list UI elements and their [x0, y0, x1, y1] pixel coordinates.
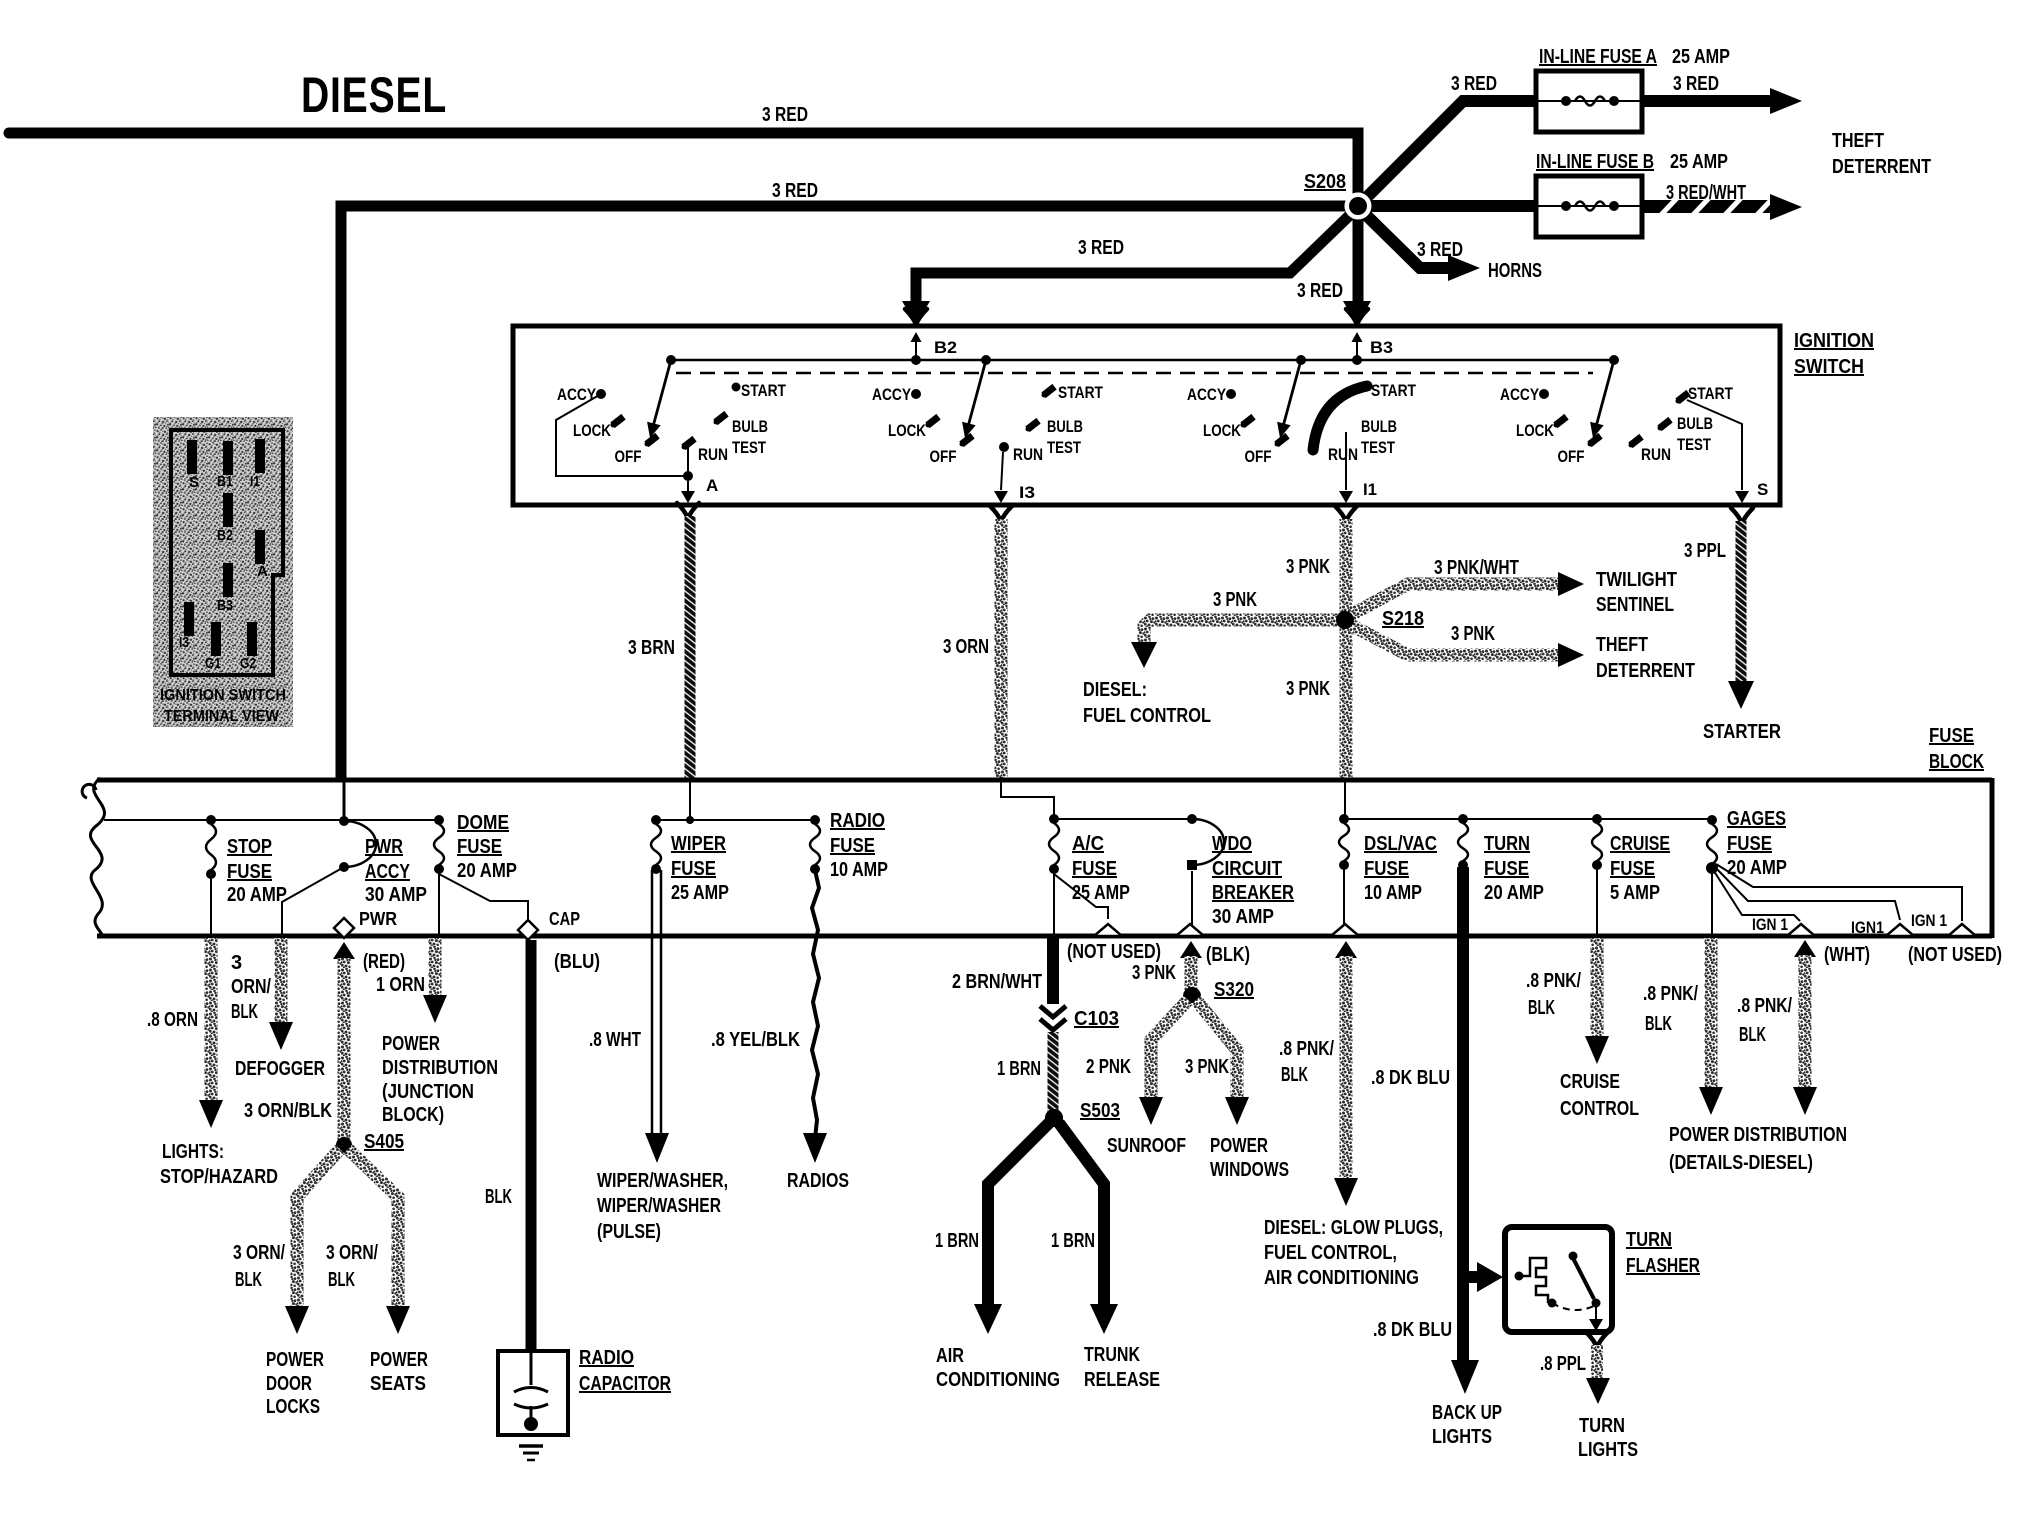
label 3 PPL [1684, 540, 1726, 562]
wire DOME fuse to CAP stud [439, 874, 528, 920]
label BULB TEST (switch 2) [1047, 417, 1083, 457]
fuse block bus segment 3 [1054, 818, 1192, 820]
node GAGES output junction [1706, 862, 1718, 874]
label 3 RED (fuse A input) [1451, 73, 1497, 95]
wire DOME fuse to border [438, 869, 440, 934]
stud CAP diamond [518, 920, 538, 940]
svg-text:STARTER: STARTER [1703, 721, 1781, 743]
label BULB TEST (switch 4) [1677, 414, 1713, 454]
in-line fuse A [1536, 71, 1642, 132]
svg-text:GAGES: GAGES [1727, 808, 1786, 830]
connector below turn flasher [1586, 1332, 1608, 1348]
label B3 [1370, 338, 1393, 357]
label RADIO FUSE 10 AMP [830, 810, 888, 881]
wire 3 RED second feed to S208 [341, 206, 1348, 780]
stud chevron (DSL/VAC) [1331, 924, 1359, 936]
label CRUISE CONTROL [1560, 1071, 1639, 1120]
ignition switch section 1 (ACCY/LOCK/OFF/RUN contacts) [596, 355, 676, 447]
svg-text:C103: C103 [1074, 1008, 1119, 1030]
svg-text:3 RED: 3 RED [1417, 239, 1463, 261]
label 3 PNK (above S218) [1286, 556, 1330, 578]
svg-text:(NOT USED): (NOT USED) [1908, 944, 2002, 966]
label S [1757, 480, 1768, 499]
label AIR CONDITIONING [936, 1345, 1060, 1391]
svg-text:20 AMP: 20 AMP [227, 884, 287, 906]
fuse block right border [1990, 778, 1995, 938]
wire 1 BRN S503 to trunk release [1059, 1123, 1118, 1334]
svg-text:1 BRN: 1 BRN [997, 1058, 1041, 1080]
svg-text:TURN: TURN [1484, 833, 1530, 855]
label SUNROOF [1107, 1135, 1186, 1157]
splice S503 dot [1045, 1109, 1063, 1127]
switch 4 labels [1500, 385, 1671, 466]
label 3 RED/WHT [1666, 182, 1746, 204]
wire 3 RED main feed (top) [9, 133, 1358, 194]
svg-text:BULB: BULB [1361, 417, 1397, 436]
svg-text:3 ORN/BLK: 3 ORN/BLK [244, 1100, 332, 1122]
stud chevron IGN1 C [1948, 924, 1976, 936]
label I3 [1019, 483, 1035, 502]
bus entry from 3 BRN [686, 782, 694, 824]
svg-text:LIGHTS: LIGHTS [1432, 1426, 1492, 1448]
svg-text:BLK: BLK [1528, 997, 1555, 1019]
svg-text:FUEL CONTROL: FUEL CONTROL [1083, 705, 1211, 727]
fuse DOME 20A [434, 815, 444, 874]
svg-text:OFF: OFF [615, 447, 642, 466]
label CRUISE FUSE 5 AMP [1610, 833, 1670, 904]
node A junction [683, 471, 693, 481]
svg-text:THEFT: THEFT [1596, 634, 1648, 656]
wire BLK to radio capacitor [526, 940, 537, 1351]
svg-text:RADIO: RADIO [579, 1347, 634, 1369]
switch 2 BULB TEST contact [1025, 418, 1040, 432]
label POWER DISTRIBUTION (DETAILS-DIESEL) [1669, 1124, 1847, 1174]
svg-text:DIESEL: DIESEL [301, 67, 447, 123]
svg-text:BLK: BLK [231, 1001, 258, 1023]
stud chevron (A/C not used) [1094, 924, 1122, 936]
svg-text:RUN: RUN [1641, 445, 1671, 464]
label RADIOS [787, 1170, 849, 1192]
label BLK [485, 1186, 512, 1208]
svg-text:BLK: BLK [1739, 1024, 1766, 1046]
label 3 BRN [628, 637, 675, 659]
label IGNITION SWITCH TERMINAL VIEW [160, 687, 286, 725]
pin I3 (terminal view) [179, 602, 194, 651]
svg-text:BULB: BULB [1047, 417, 1083, 436]
svg-text:3 PNK/WHT: 3 PNK/WHT [1434, 557, 1519, 579]
wire 1 ORN to power distribution [423, 938, 447, 1023]
label 3 ORN/BLK (S405 feed) [244, 1100, 332, 1122]
svg-text:BLOCK: BLOCK [1929, 751, 1984, 773]
svg-text:25 AMP: 25 AMP [1672, 46, 1730, 68]
svg-text:POWER DISTRIBUTION: POWER DISTRIBUTION [1669, 1124, 1847, 1146]
splice S218 [1336, 611, 1354, 629]
fuse STOP 20A [206, 815, 216, 879]
fuse block top border [97, 778, 1992, 783]
wire 3 PNK/WHT S218 to twilight sentinel [1349, 572, 1584, 616]
svg-text:LOCK: LOCK [888, 421, 927, 440]
fuse block bus segment 1 [104, 819, 439, 821]
svg-text:S: S [189, 474, 199, 491]
wire .8 PNK/BLK IGN1 to power distribution [1793, 955, 1817, 1115]
svg-text:20 AMP: 20 AMP [457, 860, 517, 882]
svg-text:3 PNK: 3 PNK [1451, 623, 1495, 645]
svg-text:DETERRENT: DETERRENT [1596, 660, 1695, 682]
label 3 ORN/BLK (seats) [326, 1242, 378, 1291]
label TWILIGHT SENTINEL [1596, 569, 1677, 616]
svg-text:START: START [1688, 384, 1733, 403]
svg-text:I3: I3 [1019, 483, 1035, 502]
svg-text:FUSE: FUSE [1610, 858, 1655, 880]
label .8 ORN [147, 1009, 198, 1031]
svg-text:(PULSE): (PULSE) [597, 1221, 661, 1243]
switch 1 ACCY feed line [556, 394, 684, 476]
svg-text:1 BRN: 1 BRN [1051, 1230, 1095, 1252]
terminal S arrow [1735, 491, 1749, 503]
wire STOP fuse to border [210, 874, 212, 934]
svg-text:THEFT: THEFT [1832, 130, 1884, 152]
label TURN FLASHER [1626, 1229, 1700, 1277]
label WDO CIRCUIT BREAKER 30 AMP [1212, 833, 1294, 928]
svg-text:ACCY: ACCY [365, 861, 411, 883]
connector below terminal I3 [990, 506, 1012, 522]
pin G2 (terminal view) [240, 622, 257, 672]
svg-text:30 AMP: 30 AMP [365, 884, 427, 906]
wire .8 WHT to wiper/washer (hollow) [645, 870, 669, 1163]
label TURN FUSE 20 AMP [1484, 833, 1544, 904]
svg-text:3 RED: 3 RED [1297, 280, 1343, 302]
label (BLU) [554, 951, 600, 973]
connector below terminal A [677, 503, 699, 519]
wire PWR ACCY to defogger exit [282, 867, 344, 934]
splice S208 [1345, 193, 1372, 220]
terminal I3 arrow [994, 452, 1008, 503]
svg-text:.8 PNK/: .8 PNK/ [1643, 983, 1698, 1005]
svg-text:ACCY: ACCY [1187, 385, 1227, 404]
wire 1 BRN C103 to S503 [1048, 1032, 1059, 1112]
svg-text:BULB: BULB [732, 417, 768, 436]
label .8 YEL/BLK [711, 1029, 800, 1051]
label STARTER [1703, 721, 1781, 743]
label PWR ACCY 30 AMP [365, 836, 427, 906]
label THEFT DETERRENT (fuse outputs) [1832, 130, 1931, 178]
label (BLK) [1206, 944, 1250, 966]
stud chevron (WDO blk) [1176, 924, 1204, 936]
in-line fuse B [1536, 176, 1642, 237]
switch 2 labels [872, 385, 1043, 466]
pin B3 (terminal view) [217, 563, 233, 614]
svg-text:I1: I1 [1363, 480, 1377, 499]
wire 3 PNK S218 to theft deterrent [1349, 624, 1584, 667]
label IGN1 (stud B) [1851, 918, 1884, 937]
ignition switch section 4 (ACCY/LOCK/OFF contacts) [1539, 355, 1619, 447]
svg-text:A: A [257, 563, 268, 580]
svg-text:IN-LINE FUSE B: IN-LINE FUSE B [1536, 151, 1654, 173]
label POWER DOOR LOCKS [266, 1349, 324, 1418]
pin I1 (terminal view) [250, 439, 265, 490]
svg-text:3: 3 [231, 952, 242, 974]
wire 3 RED S208 to B2 [902, 212, 1353, 325]
wire CRUISE fuse to border [1596, 865, 1598, 934]
svg-text:3 PNK: 3 PNK [1132, 962, 1176, 984]
svg-text:(BLU): (BLU) [554, 951, 600, 973]
switch 1 labels [557, 385, 728, 466]
svg-text:WIPER/WASHER,: WIPER/WASHER, [597, 1170, 728, 1192]
arrow up (RED) into PWR stud [333, 942, 355, 959]
svg-text:S320: S320 [1214, 979, 1254, 1001]
svg-text:S: S [1757, 480, 1768, 499]
svg-text:TRUNK: TRUNK [1084, 1344, 1140, 1366]
pin S (terminal view) [187, 440, 199, 491]
terminal A arrow [681, 481, 695, 503]
svg-text:CAPACITOR: CAPACITOR [579, 1373, 671, 1395]
wire A/C fuse to border [1053, 869, 1055, 934]
svg-text:B3: B3 [1370, 338, 1393, 357]
svg-text:3 PNK: 3 PNK [1185, 1056, 1229, 1078]
svg-text:FUSE: FUSE [1929, 725, 1974, 747]
arrow up (WHT) into IGN1 stud [1794, 940, 1816, 957]
svg-text:DIESEL:: DIESEL: [1083, 679, 1147, 701]
svg-text:LOCK: LOCK [573, 421, 612, 440]
label .8 PNK/BLK (cruise) [1526, 970, 1581, 1019]
wire 3 RED S208 to horns [1363, 212, 1480, 281]
stud chevron IGN1 A [1787, 924, 1815, 936]
svg-text:RUN: RUN [698, 445, 728, 464]
svg-text:FUSE: FUSE [671, 858, 716, 880]
label 1 BRN (trunk release) [1051, 1230, 1095, 1252]
svg-text:I1: I1 [250, 473, 260, 490]
svg-text:20 AMP: 20 AMP [1484, 882, 1544, 904]
svg-text:WIPER/WASHER: WIPER/WASHER [597, 1195, 721, 1217]
svg-text:IGN 1: IGN 1 [1752, 915, 1788, 934]
breaker PWR ACCY 30A [339, 816, 376, 872]
wire 1 BRN S503 to air conditioning [974, 1123, 1049, 1334]
svg-text:FUEL CONTROL,: FUEL CONTROL, [1264, 1242, 1397, 1264]
fuse block bus segment 2 [656, 819, 815, 821]
fuse block torn left edge [82, 778, 104, 938]
svg-text:RUN: RUN [1013, 445, 1043, 464]
svg-text:.8 ORN: .8 ORN [147, 1009, 198, 1031]
stud PWR diamond [334, 918, 354, 938]
svg-text:1 ORN: 1 ORN [376, 974, 425, 996]
wire .8 YEL/BLK to radios (wavy) [803, 870, 827, 1163]
wire 3 PPL (S to starter) [1728, 521, 1754, 709]
svg-text:(NOT USED): (NOT USED) [1067, 941, 1161, 963]
label 3 ORN/BLK (defogger) [231, 952, 271, 1023]
svg-text:3 RED: 3 RED [772, 180, 818, 202]
wire 3 ORN/BLK to defogger [269, 938, 293, 1050]
label BULB TEST (switch 1) [732, 417, 768, 457]
ground (radio capacitor) [519, 1446, 543, 1460]
label (WHT) [1824, 944, 1870, 966]
svg-text:3 RED: 3 RED [1078, 237, 1124, 259]
svg-text:25 AMP: 25 AMP [1670, 151, 1728, 173]
label 2 BRN/WHT [952, 971, 1042, 993]
svg-text:B2: B2 [217, 527, 233, 544]
label .8 DK BLU (upper) [1371, 1067, 1450, 1089]
label A [706, 476, 718, 495]
wire .8 PNK/BLK GAGES to power distribution [1699, 938, 1723, 1115]
label 3 PNK (below S218) [1286, 678, 1330, 700]
svg-text:POWER: POWER [382, 1033, 440, 1055]
svg-text:TURN: TURN [1579, 1415, 1625, 1437]
connector below terminal S [1731, 508, 1753, 524]
switch 4 BULB TEST contact [1657, 417, 1672, 431]
svg-text:S405: S405 [364, 1131, 404, 1153]
label FUSE BLOCK [1929, 725, 1984, 773]
label .8 PNK/BLK (gages) [1643, 983, 1698, 1035]
wire 3 PNK (I1 to fuse block via S218) [1340, 519, 1353, 778]
label CAP [549, 909, 580, 929]
label .8 PPL [1540, 1353, 1586, 1375]
svg-text:ORN/: ORN/ [231, 976, 271, 998]
arrow up into DSL/VAC stud [1335, 941, 1357, 958]
fuse A/C 25A [1049, 814, 1059, 874]
svg-text:OFF: OFF [1245, 447, 1272, 466]
svg-text:IN-LINE FUSE A: IN-LINE FUSE A [1539, 46, 1657, 68]
svg-text:3 PNK: 3 PNK [1286, 556, 1330, 578]
svg-text:LIGHTS:: LIGHTS: [162, 1141, 224, 1163]
turn flasher internals [1515, 1252, 1604, 1332]
splice S208 dot [1345, 193, 1372, 220]
svg-text:IGNITION SWITCH: IGNITION SWITCH [160, 687, 286, 704]
label .8 PNK/BLK (ign1) [1737, 995, 1792, 1046]
svg-text:25 AMP: 25 AMP [1072, 882, 1130, 904]
label POWER SEATS [370, 1349, 428, 1395]
svg-text:POWER: POWER [266, 1349, 324, 1371]
wire 3 PNK S320 to power windows [1196, 1000, 1249, 1125]
svg-text:DIESEL: GLOW PLUGS,: DIESEL: GLOW PLUGS, [1264, 1217, 1443, 1239]
label (RED) [363, 951, 405, 973]
svg-text:CONTROL: CONTROL [1560, 1098, 1639, 1120]
switch 1 BULB TEST contact [713, 411, 728, 425]
label START (switch 3) [1371, 381, 1416, 400]
svg-text:.8 YEL/BLK: .8 YEL/BLK [711, 1029, 800, 1051]
svg-text:S218: S218 [1382, 608, 1424, 630]
fuse RADIO 10A [810, 815, 820, 874]
svg-text:CONDITIONING: CONDITIONING [936, 1369, 1060, 1391]
svg-text:G2: G2 [240, 655, 256, 672]
ignition switch terminal view panel background [153, 417, 293, 727]
svg-text:3 RED: 3 RED [762, 104, 808, 126]
svg-text:FUSE: FUSE [457, 836, 502, 858]
wire GAGES fan line to IGN1 stud B [1714, 866, 1900, 920]
svg-text:RADIOS: RADIOS [787, 1170, 849, 1192]
label DIESEL: FUEL CONTROL [1083, 679, 1211, 727]
stud chevron IGN1 B [1886, 924, 1914, 936]
terminal B3 (ignition switch) [1352, 332, 1363, 365]
svg-text:3 ORN: 3 ORN [943, 636, 989, 658]
svg-text:2 BRN/WHT: 2 BRN/WHT [952, 971, 1042, 993]
wire GAGES fan line to IGN1 stud A [1712, 868, 1800, 921]
turn flasher U1 box [1505, 1227, 1612, 1332]
svg-text:3 RED: 3 RED [1673, 73, 1719, 95]
label 25 AMP (fuse B) [1670, 151, 1728, 173]
label 3 RED (top feed) [762, 104, 808, 126]
svg-text:(BLK): (BLK) [1206, 944, 1250, 966]
svg-text:3 ORN/: 3 ORN/ [326, 1242, 378, 1264]
label I1 [1363, 480, 1377, 499]
label S320 [1214, 979, 1254, 1001]
svg-text:OFF: OFF [930, 447, 957, 466]
svg-text:A: A [706, 476, 718, 495]
fuse CRUISE 5A [1592, 814, 1602, 870]
svg-text:ACCY: ACCY [557, 385, 597, 404]
svg-text:2 PNK: 2 PNK [1086, 1056, 1131, 1078]
label IGN 1 (stud C) [1911, 911, 1947, 930]
svg-text:TERMINAL VIEW: TERMINAL VIEW [164, 708, 280, 725]
svg-text:SEATS: SEATS [370, 1373, 426, 1395]
svg-text:CRUISE: CRUISE [1610, 833, 1670, 855]
svg-text:IGNITION: IGNITION [1794, 330, 1874, 352]
label 3 PNK (theft deterrent branch) [1451, 623, 1495, 645]
label IGNITION SWITCH [1794, 330, 1874, 378]
wire 3 PNK S218 to diesel fuel control [1131, 620, 1340, 668]
svg-text:BLOCK): BLOCK) [382, 1104, 444, 1126]
svg-text:TEST: TEST [1361, 438, 1395, 457]
wire 3 RED/WHT fuse B output [1642, 194, 1802, 220]
connector C103 [1040, 1006, 1066, 1030]
svg-text:(WHT): (WHT) [1824, 944, 1870, 966]
svg-text:BLK: BLK [485, 1186, 512, 1208]
label 3 RED (horns) [1417, 239, 1463, 261]
switch 3 thick contact arc [1313, 386, 1367, 450]
svg-text:DSL/VAC: DSL/VAC [1364, 833, 1437, 855]
svg-text:FLASHER: FLASHER [1626, 1255, 1700, 1277]
svg-text:STOP: STOP [227, 836, 272, 858]
svg-text:A/C: A/C [1072, 833, 1104, 855]
ignition switch bus wire [671, 359, 1614, 362]
svg-text:.8 PNK/: .8 PNK/ [1526, 970, 1581, 992]
label WIPER/WASHER (PULSE) [597, 1170, 728, 1243]
svg-text:FUSE: FUSE [1072, 858, 1117, 880]
svg-text:3 PNK: 3 PNK [1213, 589, 1257, 611]
splice S218 dot [1336, 611, 1354, 629]
label (NOT USED) (A/C stud) [1067, 941, 1161, 963]
wire .8 PNK/BLK CRUISE to cruise control [1585, 938, 1609, 1064]
svg-text:FUSE: FUSE [1727, 833, 1772, 855]
svg-text:RADIO: RADIO [830, 810, 885, 832]
label RADIO CAPACITOR [579, 1347, 671, 1395]
label .8 WHT [589, 1029, 641, 1051]
label 3 RED (fuse A output) [1673, 73, 1719, 95]
label WIPER FUSE 25 AMP [671, 833, 729, 904]
ignition switch box [513, 326, 1780, 505]
svg-text:SWITCH: SWITCH [1794, 356, 1864, 378]
pin B2 (terminal view) [217, 493, 233, 544]
label A/C FUSE 25 AMP [1072, 833, 1130, 904]
svg-text:B1: B1 [217, 473, 233, 490]
svg-text:3 RED/WHT: 3 RED/WHT [1666, 182, 1746, 204]
label 2 PNK [1086, 1056, 1131, 1078]
label START (switch 2) [1058, 383, 1103, 402]
label POWER WINDOWS [1210, 1135, 1289, 1181]
svg-text:POWER: POWER [370, 1349, 428, 1371]
svg-text:FUSE: FUSE [227, 861, 272, 883]
label 3 RED (B2 wire) [1078, 237, 1124, 259]
label IN-LINE FUSE A [1539, 46, 1657, 68]
label DEFOGGER [235, 1058, 325, 1080]
svg-text:10 AMP: 10 AMP [830, 859, 888, 881]
svg-text:3 BRN: 3 BRN [628, 637, 675, 659]
ignition switch section 2 (ACCY/LOCK/OFF contacts) [911, 355, 991, 447]
svg-text:BACK UP: BACK UP [1432, 1402, 1502, 1424]
svg-text:START: START [741, 381, 786, 400]
svg-text:RELEASE: RELEASE [1084, 1369, 1160, 1391]
label GAGES FUSE 20 AMP [1727, 808, 1787, 879]
svg-text:25 AMP: 25 AMP [671, 882, 729, 904]
svg-text:OFF: OFF [1558, 447, 1585, 466]
